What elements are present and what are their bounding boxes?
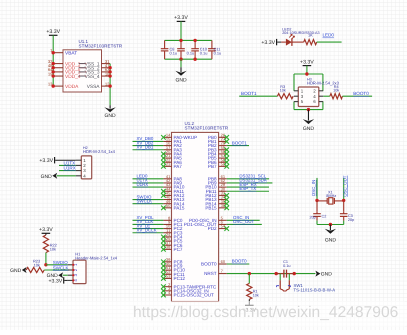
svg-text:0.1u: 0.1u [283,264,290,268]
node XV_CLK [137,219,154,224]
wire R4 to BOOT0 [343,95,373,97]
pin 45 PA12 (U1.2) [163,191,184,199]
junction crystal ground [329,223,332,226]
wire PB8 to DS3231_SCL [227,178,269,180]
pin 3 (H2) [76,168,87,173]
svg-text:GND: GND [41,174,53,180]
pin 19 VDD_4 (U1.1) [48,71,86,80]
wire OSC_OUT to C3 [343,200,345,211]
wire crystal ground rail [317,224,344,226]
svg-text:20p: 20p [309,215,315,219]
pin 14 PA0-WKUP (U1.2) [163,132,197,140]
wire NRST [227,273,316,275]
capacitor C1 0.1u [276,260,294,278]
pins 3/4 (H3) [294,94,323,99]
wire cap bus bottom [165,58,212,60]
svg-text:STM32F103RET6TR: STM32F103RET6TR [185,126,229,131]
ground (U1.1) [104,105,116,119]
pin 24 PC4 (U1.2) [163,232,182,240]
junction C9 top [179,39,182,42]
pin 11 PC3 (U1.2) [163,228,182,236]
wire PA9 to U1TX [133,182,164,184]
pin 3 (H1) [68,273,78,276]
svg-text:0.1u: 0.1u [170,51,178,56]
svg-text:XV_DCLK: XV_DCLK [137,227,157,232]
svg-text:VBAT: VBAT [65,50,77,56]
svg-text:TS-1101S-B-B-B-W-A: TS-1101S-B-B-B-W-A [294,287,336,292]
wire PC3 to XV_DCLK [133,232,164,234]
pin 52 PC11 (U1.2) [163,269,185,277]
pin 57 PB5 (U1.2) [208,153,227,161]
no-connect PB0 [224,135,229,140]
svg-text:50: 50 [166,203,171,208]
pin 15 PA1 (U1.2) [163,137,182,145]
wire R4 to pin 4 [323,95,330,97]
ground (cap bank) [175,67,187,83]
junction C10 bottom [193,58,196,61]
pin 43 PA10 (U1.2) [163,182,184,190]
pin 31 VSS_1 (U1.1) [79,59,111,68]
pin 27 PB1 (U1.2) [208,137,227,145]
pin 35 PB14 (U1.2) [205,199,226,207]
no-connect PB4 [224,152,229,157]
svg-text:C2: C2 [322,214,327,218]
pin 26 PB0 (U1.2) [208,132,227,140]
pin 4 PC15-OSC32_OUT (U1.2) [163,290,214,298]
pin 50 PA15 (U1.2) [163,203,184,211]
pin 63 VSS_3 (U1.1) [79,67,111,76]
power symbol +3.3V (R1 pull-up) [242,305,256,313]
svg-text:SWDIO: SWDIO [53,260,68,265]
junction VDD_2 [52,66,55,69]
capacitor C2 20p [309,212,326,221]
resistor R23 10k [26,259,44,273]
svg-text:STM32F103RET6TR: STM32F103RET6TR [79,44,123,49]
wire top rail to pin 1 [293,74,295,91]
wire PA13 to SWDIO [133,199,164,201]
svg-text:PA15: PA15 [174,205,185,210]
resistor R22 10k [43,235,57,253]
pin 39 PC8 (U1.2) [163,257,182,265]
pin 64 VDD_3 (U1.1) [48,67,86,76]
wire OSC_IN to C2 [316,200,318,211]
svg-text:XV_DB1: XV_DB1 [137,144,154,149]
no-connect PC4 [161,235,166,240]
no-connect PC6 [161,243,166,248]
no-connect PC14-OSC32_IN [161,289,166,294]
resistor R4 10k [330,85,343,99]
wire +3.3V to H2 pin 1 [55,159,75,161]
node U1TX [137,178,148,183]
pin 2 (H1) [68,268,78,271]
no-connect PB1 [224,139,229,144]
pin 7 NRST (U1.2) [204,269,227,277]
pin 51 PC10 (U1.2) [163,265,185,273]
pin 41 PA8 (U1.2) [163,174,182,182]
svg-text:10k: 10k [253,294,259,298]
node ESP_RX [239,182,256,187]
svg-text:https://blog.csdn.net/weixin_4: https://blog.csdn.net/weixin_42487906 [133,304,398,321]
wire BOOT1 to R3 [239,95,277,97]
capacitor C11 0.1u [208,40,221,59]
no-connect PC12 [161,276,166,281]
power symbol +3.3V (cap bank) [174,15,188,21]
no-connect PB3 [224,147,229,152]
ground (crystal) [325,225,337,244]
svg-text:GND: GND [325,237,337,243]
svg-text:GND: GND [175,78,187,84]
junction C10 top [193,39,196,42]
pin 61 PB8 (U1.2) [208,174,227,182]
node ESP_TX [239,186,256,191]
svg-text:8MHz: 8MHz [326,194,336,198]
wire GND to H2 pin 4 [57,175,76,177]
pin 36 PB15 (U1.2) [205,203,226,211]
ground (H1 pin 3) [47,272,64,279]
svg-text:53: 53 [166,274,171,279]
svg-text:VDD_4: VDD_4 [65,74,81,80]
pin 46 PA13 (U1.2) [163,195,184,203]
power symbol +3.3V (H2 pin1) [39,157,54,164]
wire +3.3V to LED2 [277,41,281,43]
junction SWDIO [44,263,47,266]
node SWCLK [137,198,153,203]
svg-text:OSC_OUT: OSC_OUT [233,219,255,224]
no-connect PC10 [161,268,166,273]
pin 28 PB2 (U1.2) [208,141,227,149]
no-connect PC7 [161,247,166,252]
svg-text:ESP_TX: ESP_TX [239,186,256,191]
resistor R1 10k [247,283,259,299]
pin 16 PA2 (U1.2) [163,141,182,149]
power symbol +3.3V (LED2) [261,39,276,46]
wire +3.3V to cap bus [180,21,182,40]
pin 40 PC9 (U1.2) [163,261,182,269]
wire header top rail [294,73,323,75]
wire cap bus to ground [180,59,182,67]
node OSC_IN (vertical) [311,180,316,196]
pin 3 PC14-OSC32_IN (U1.2) [163,286,208,294]
node SWCLK (H1) [53,265,69,270]
power symbol +3.3V (U1.1 supply) [46,29,60,35]
pin 6 PD1-OSC_OUT (U1.2) [184,220,227,228]
wire +3.3V rail to VDD pins [52,35,54,86]
wire BOOT0 to BOOT0 [227,263,250,265]
wire PB2 to BOOT1 [227,145,249,147]
wire U1RX to H2 pin 3 [59,170,76,172]
node DS3231_SCL [239,174,266,179]
svg-text:+3.3V: +3.3V [46,29,60,35]
svg-text:PC7: PC7 [174,247,183,252]
wire SWDIO to H1 pin 1 [46,264,68,266]
pin 10 PC2 (U1.2) [163,224,182,232]
no-connect PC13-TAMPER-RTC [161,284,166,289]
svg-text:PB7: PB7 [208,164,217,169]
wire OSC_IN vertical [316,178,318,201]
wire PB11 to ESP_TX [227,190,269,192]
pin 25 PC5 (U1.2) [163,236,182,244]
no-connect PC5 [161,239,166,244]
no-connect PA7 [161,164,166,169]
pins 1/2 (H3) [294,88,323,93]
node XV_POL [137,215,155,220]
connector H1 Header-Male-2.54_1x4 [73,251,118,283]
svg-text:OSC_OUT: OSC_OUT [342,175,347,197]
resistor R2 1K [304,33,317,45]
wire VSS rail to ground [109,64,111,106]
svg-text:LED0: LED0 [323,33,335,38]
svg-text:VDDA: VDDA [65,84,79,90]
pin 2 (H2) [76,163,87,168]
capacitor C10 0.1u [191,40,207,59]
no-connect PC11 [161,272,166,277]
pin 30 PB11 (U1.2) [206,186,227,194]
watermark text [133,304,398,321]
node U1RX [64,166,76,171]
svg-text:1K: 1K [308,33,313,38]
svg-text:38: 38 [166,244,171,249]
svg-text:60: 60 [221,259,226,264]
node U1TX [64,160,76,165]
svg-text:BOOT1: BOOT1 [241,91,257,96]
crystal X1 8MHz [317,190,344,204]
svg-text:BOOT1: BOOT1 [232,140,247,145]
node LED0 [323,33,335,38]
wire R23 to H1 pin 2 [44,269,68,271]
pin 48 VDD_2 (U1.1) [48,63,86,72]
node BOOT1 [232,140,247,145]
connector H3 HDR-M-2.54_2x3 [298,78,339,107]
node BOOT0 [232,259,247,264]
junction VDD_3 [52,70,55,73]
svg-text:PC12: PC12 [174,276,186,281]
pin 9 PC1 (U1.2) [163,220,182,228]
wire PA2 to XV_DB2 [133,145,164,147]
wire PD1-OSC_OUT to OSC_OUT [227,223,262,225]
svg-text:VSS_4: VSS_4 [85,74,100,80]
wire PA14 to SWCLK [133,203,164,205]
junction VSS_4 [108,74,111,77]
junction NRST/R1 [248,272,251,275]
wire LED2 to R2 [292,41,304,43]
pin 1 (H2) [76,158,87,163]
junction VDDA [52,84,55,87]
pin 49 PA14 (U1.2) [163,199,184,207]
power symbol +3.3V (R22) [39,227,53,233]
junction header top [305,72,308,75]
wire U1TX to H2 pin 2 [59,164,76,166]
junction SW1 left [275,272,278,275]
wire PB9 to DS3231_SDA [227,182,273,184]
pin 62 PB9 (U1.2) [208,178,227,186]
node BOOT1 (left) [241,91,257,96]
svg-text:+3.3V: +3.3V [48,278,62,284]
junction VBAT [52,51,55,54]
wire PA8 to LED0 [133,178,164,180]
wire C2 to ground rail [316,221,318,225]
no-connect PB15 [224,206,229,211]
no-connect PC9 [161,264,166,269]
wire PC2 to XV_LE [133,228,164,230]
junction VDD_4 [52,74,55,77]
pin 55 PB3 (U1.2) [208,145,227,153]
wire header bottom rail [294,109,323,111]
svg-text:GND: GND [303,126,315,132]
switch SW1 TS-1101S-B-B-B-W-A [276,274,335,293]
pin 37 PC6 (U1.2) [163,240,182,248]
node XV_DB2 [137,140,154,145]
svg-text:BOOT0: BOOT0 [353,91,369,96]
junction SW1 right [293,272,296,275]
ground (boot header) [303,110,315,132]
wire PA1 to XV_DB0 [133,140,164,142]
wire OSC_OUT vertical [343,178,345,201]
junction VSS_3 [108,70,111,73]
wire PC0 to XV_POL [133,219,164,221]
no-connect PC15-OSC32_OUT [161,293,166,298]
no-connect PA4 [161,152,166,157]
wire pin 5 to bottom rail [293,102,295,110]
no-connect PA0-WKUP [161,135,166,140]
pin 47 VSS_2 (U1.1) [79,63,111,72]
svg-text:HDR-M-2.54_1x4: HDR-M-2.54_1x4 [83,149,116,154]
wire PD0-OSC_IN to OSC_IN [227,219,260,221]
junction C9 bottom [179,58,182,61]
svg-text:10k: 10k [50,247,56,252]
ground (R23, left flag) [10,267,27,274]
svg-text:U1RX: U1RX [137,182,149,187]
svg-text:+3.3V: +3.3V [300,59,314,65]
node U1RX [137,182,149,187]
pin 17 PA3 (U1.2) [163,145,182,153]
svg-text:204-10SURD/S530-A3: 204-10SURD/S530-A3 [282,31,319,35]
node SWDIO (H1) [53,260,68,265]
svg-text:OSC_IN: OSC_IN [311,180,316,196]
svg-text:PD2: PD2 [208,226,217,231]
pin 18 VSS_4 (U1.1) [79,71,111,80]
IC U1.1 STM32F103RET6TR power section [63,39,123,92]
no-connect PB14 [224,201,229,206]
pins 5/6 (H3) [294,99,323,104]
node BOOT0 (right) [353,91,369,96]
pin 44 PA11 (U1.2) [163,186,184,194]
pin 4 (H1) [68,279,78,282]
wire +3.3V to R22 [45,233,47,235]
svg-text:Header-Male-2.54_1x4: Header-Male-2.54_1x4 [75,255,118,260]
pin 33 PB12 (U1.2) [205,191,226,199]
svg-text:10k: 10k [333,89,339,93]
svg-text:GND: GND [321,272,333,278]
capacitor C3 20p [340,212,354,222]
node XV_LE [137,223,151,228]
node XV_DB1 [137,144,154,149]
power symbol +3.3V (H1 pin 4) [48,277,63,284]
pin 22 PA6 (U1.2) [163,157,182,165]
wire R2 to LED0 [317,41,342,43]
pin 53 PC12 (U1.2) [163,274,185,282]
IC U1.2 STM32F103RET6TR [172,121,229,302]
no-connect PA5 [161,156,166,161]
ground (H2 pin4) [41,173,58,180]
svg-text:+3.3V: +3.3V [39,158,53,164]
svg-text:NRST: NRST [204,271,217,276]
capacitor C8 0.1u [161,40,177,59]
wire C3 to ground rail [343,221,345,225]
no-connect PA11 [161,189,166,194]
pin 12 VSSA (U1.1) [87,81,110,90]
pin 42 PA9 (U1.2) [163,178,182,186]
wire PC1 to XV_CLK [133,223,164,225]
pin 56 PB4 (U1.2) [208,149,227,157]
node SWDIO [137,194,152,199]
no-connect PA12 [161,193,166,198]
wire R1 to +3.3V [248,299,250,305]
power symbol +3.3V (boot header) [300,59,314,65]
wire PB10 to ESP_RX [227,186,269,188]
LED LED2 204-10SURD/S530-A3 [281,27,319,46]
pin 60 BOOT0 (U1.2) [201,259,227,267]
node XV_DB0 [137,136,154,141]
pin 1 (H1) [68,263,78,266]
svg-text:20p: 20p [348,218,354,222]
no-connect PC8 [161,260,166,265]
node LED0 [137,174,149,179]
junction OSC_OUT [342,199,345,202]
wire +3.3V to header top [306,66,308,74]
svg-text:PB15: PB15 [205,205,217,210]
pin 21 PA5 (U1.2) [163,153,182,161]
svg-text:VSSA: VSSA [87,84,101,90]
junction header bottom [307,108,310,111]
svg-text:PC15-OSC32_OUT: PC15-OSC32_OUT [174,293,215,298]
svg-text:0.1u: 0.1u [200,51,208,56]
pin 29 PB10 (U1.2) [205,182,226,190]
wire R22 to SWDIO [45,253,47,265]
pin 23 PA7 (U1.2) [163,161,182,169]
no-connect PD2 [224,226,229,231]
svg-text:23: 23 [166,161,171,166]
capacitor C9 0.1u [177,40,194,59]
node XV_DCLK [137,227,157,232]
no-connect PA15 [161,206,166,211]
svg-text:+3.3V: +3.3V [261,40,275,46]
svg-text:10k: 10k [34,262,40,267]
junction VSS_2 [108,66,111,69]
svg-text:SWCLK: SWCLK [137,198,153,203]
no-connect PB6 [224,160,229,165]
pin 59 PB7 (U1.2) [208,161,227,169]
pin 4 (H2) [76,173,87,178]
svg-text:0.1u: 0.1u [214,51,222,56]
wire top rail to pin 2 [322,74,324,91]
pin 20 PA4 (U1.2) [163,149,182,157]
pin 34 PB13 (U1.2) [205,195,226,203]
junction VDD_1 [52,62,55,65]
wire PA3 to XV_DB1 [133,149,164,151]
junction OSC_IN [315,199,318,202]
pin 5 PD0-OSC_IN (U1.2) [189,215,227,223]
ground (NRST, right flag) [315,271,332,278]
svg-text:GND: GND [10,268,22,274]
svg-text:U1RX: U1RX [64,166,76,171]
svg-text:BOOT0: BOOT0 [232,259,247,264]
pin 58 PB6 (U1.2) [208,157,227,165]
svg-text:+3.3V: +3.3V [174,15,188,21]
no-connect PB12 [224,193,229,198]
node OSC_IN [233,215,249,220]
svg-text:10k: 10k [280,89,286,93]
pin 38 PC7 (U1.2) [163,244,182,252]
